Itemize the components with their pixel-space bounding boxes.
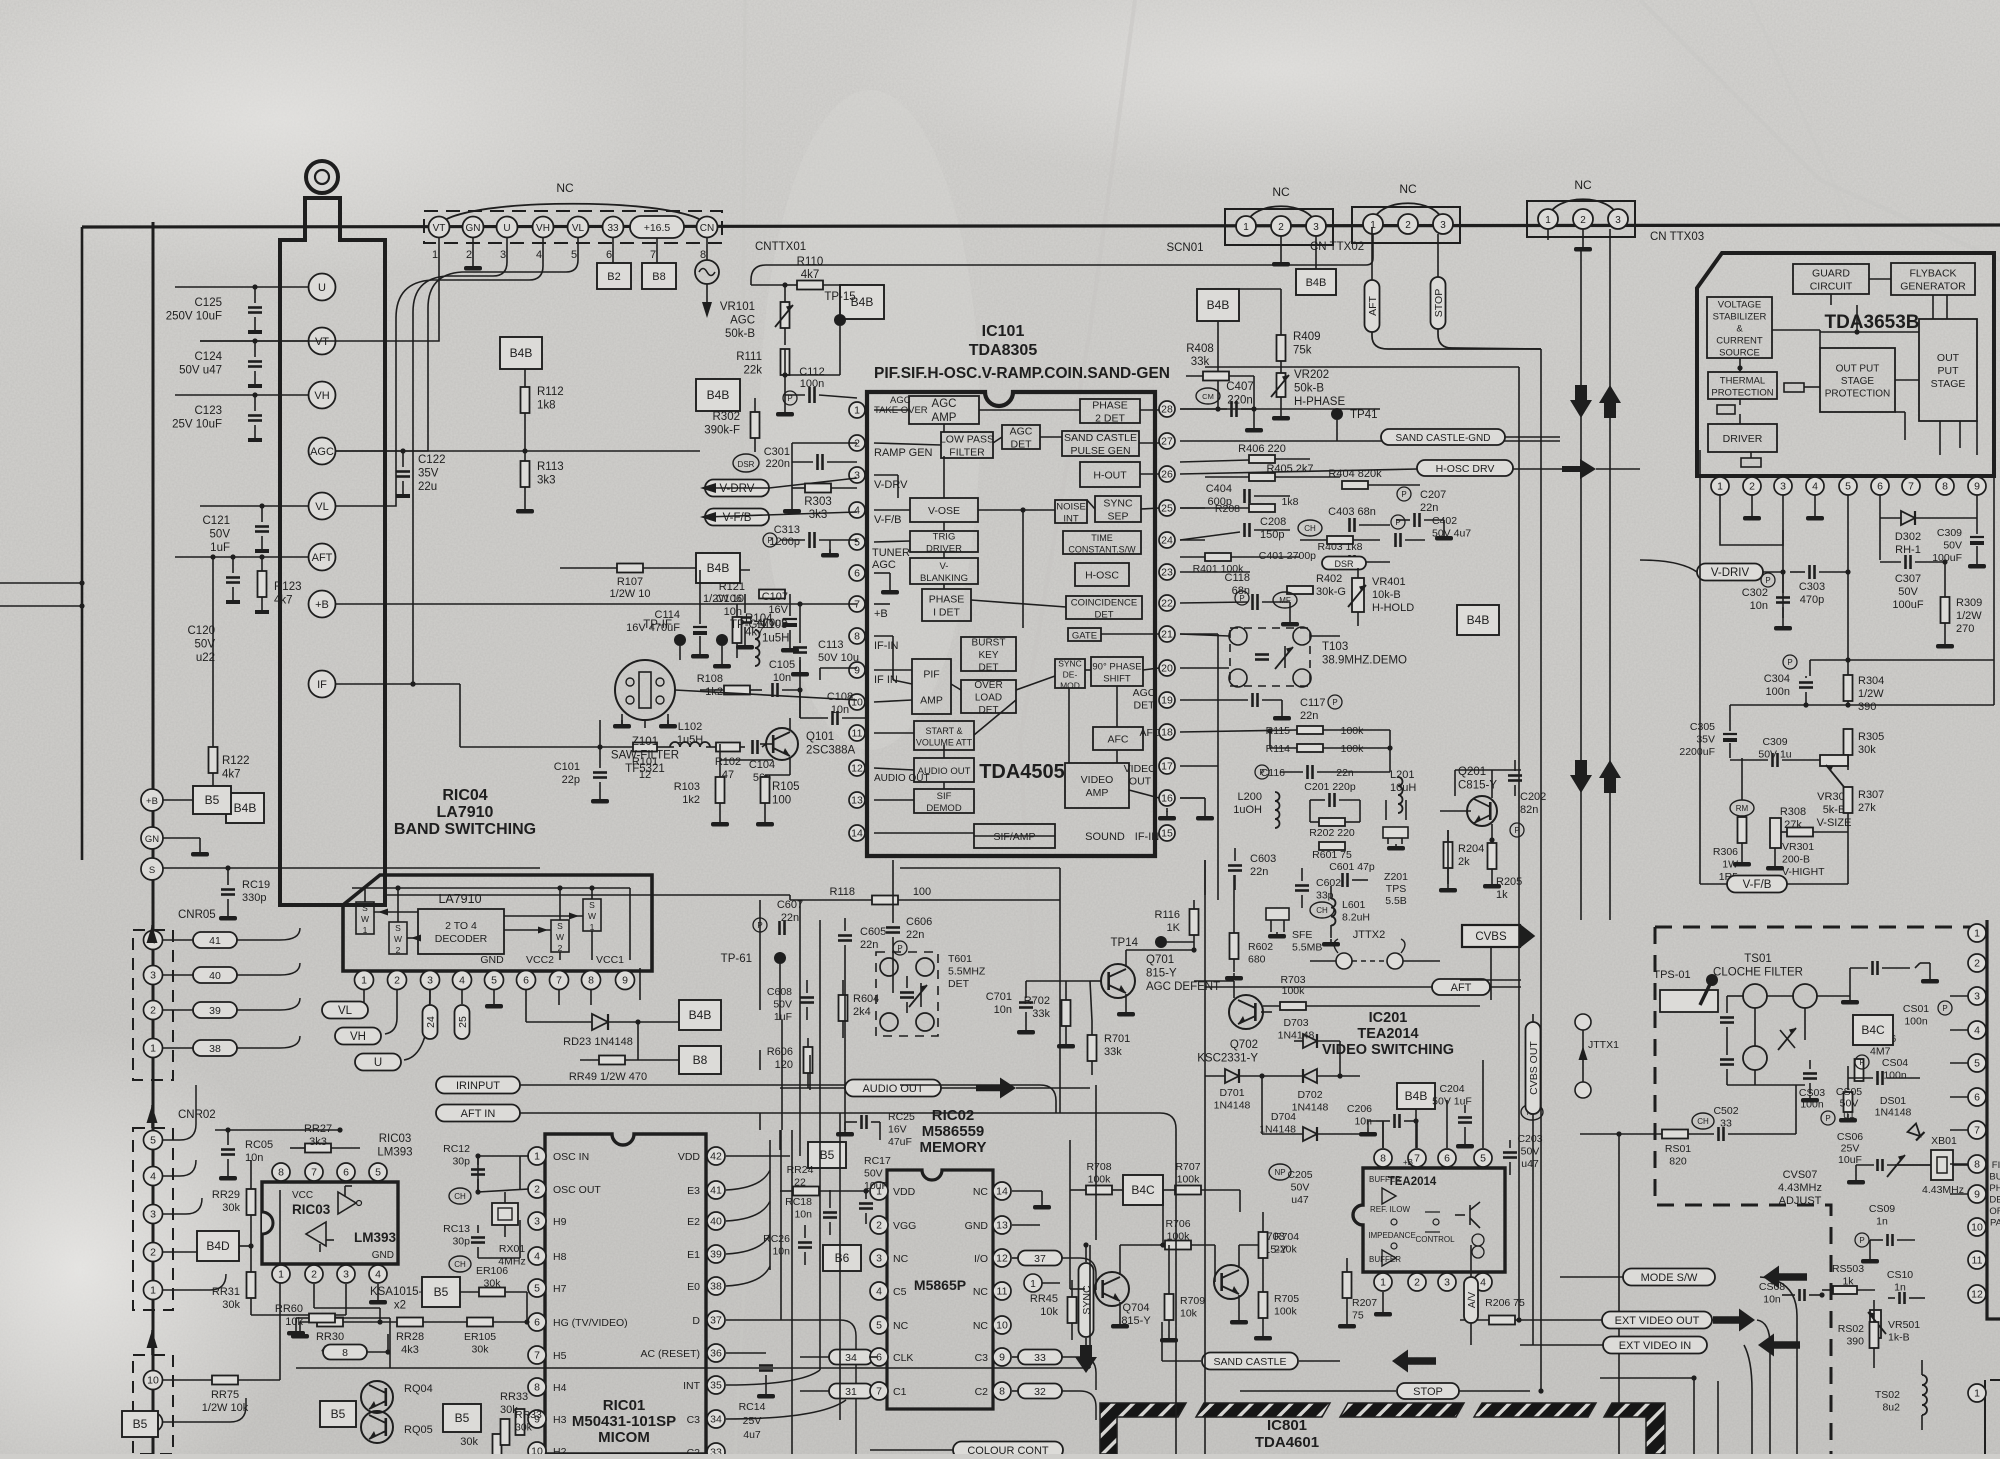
svg-text:C305: C305 bbox=[1690, 721, 1715, 733]
svg-text:TPS: TPS bbox=[1386, 883, 1406, 895]
inductor L103 bbox=[755, 619, 790, 666]
svg-text:RR31: RR31 bbox=[212, 1286, 240, 1298]
svg-text:NC: NC bbox=[973, 1320, 989, 1332]
svg-text:GND: GND bbox=[965, 1220, 989, 1232]
svg-text:1/2W 10k: 1/2W 10k bbox=[202, 1402, 249, 1414]
resistor R305 bbox=[1844, 729, 1885, 770]
svg-text:L200: L200 bbox=[1238, 791, 1262, 803]
svg-text:H2: H2 bbox=[553, 1446, 567, 1454]
RIC02 pin 9 bbox=[975, 1348, 1011, 1366]
label CVS07 bbox=[1778, 1155, 1931, 1207]
IC101 pin 20 bbox=[1159, 660, 1175, 676]
svg-text:R103: R103 bbox=[674, 781, 700, 793]
capacitor CS05 bbox=[1836, 1086, 1862, 1121]
box B4D bbox=[197, 1231, 254, 1261]
svg-text:C701: C701 bbox=[986, 991, 1012, 1003]
svg-text:22: 22 bbox=[794, 1177, 806, 1189]
wire CNTTX03 pin1 down bbox=[1547, 229, 1549, 240]
svg-text:8u2: 8u2 bbox=[1882, 1402, 1900, 1414]
colour IC pin 5 bbox=[1968, 1054, 1986, 1072]
svg-text:RH-1: RH-1 bbox=[1895, 544, 1921, 556]
IC101 pin19 label AGC DET bbox=[1133, 687, 1156, 712]
svg-text:S: S bbox=[557, 921, 563, 931]
capacitor C113 bbox=[791, 601, 859, 676]
colour IC pin 2 bbox=[1968, 954, 1986, 972]
svg-text:RM: RM bbox=[1736, 804, 1749, 813]
svg-text:8: 8 bbox=[342, 1347, 348, 1359]
svg-text:CVBS OUT: CVBS OUT bbox=[1528, 1041, 1540, 1095]
block PIF AMP bbox=[912, 659, 951, 714]
svg-text:DSR: DSR bbox=[1334, 559, 1354, 569]
svg-text:BUFFER: BUFFER bbox=[1369, 1175, 1401, 1184]
svg-text:R204: R204 bbox=[1458, 843, 1484, 855]
block COINCIDENCE DET bbox=[1066, 596, 1142, 621]
svg-text:H-OSC: H-OSC bbox=[1085, 570, 1119, 582]
svg-text:RX01: RX01 bbox=[499, 1243, 525, 1255]
svg-text:8: 8 bbox=[700, 249, 706, 261]
block VIDEO AMP bbox=[1065, 763, 1129, 808]
svg-text:33k: 33k bbox=[1104, 1046, 1122, 1058]
wire CNTTX01 pin1 down bbox=[200, 238, 439, 341]
svg-text:B5: B5 bbox=[455, 1411, 470, 1425]
RIC02 pin 3 bbox=[870, 1249, 909, 1267]
tuner pin +B bbox=[309, 591, 336, 618]
svg-text:R123: R123 bbox=[274, 581, 302, 593]
svg-text:CIRCUIT: CIRCUIT bbox=[1810, 281, 1853, 293]
svg-text:JTTX1: JTTX1 bbox=[1588, 1039, 1619, 1051]
svg-text:VCC: VCC bbox=[292, 1190, 313, 1201]
svg-text:VR101: VR101 bbox=[720, 301, 755, 313]
capacitor C125 bbox=[166, 287, 262, 334]
svg-text:10n: 10n bbox=[772, 1246, 790, 1258]
wire CNTTX01 pin4 down bbox=[336, 238, 543, 506]
box B8 la bbox=[679, 1046, 721, 1074]
svg-text:R406 220: R406 220 bbox=[1238, 443, 1286, 455]
wire sand h bbox=[1180, 539, 1205, 541]
svg-text:220k: 220k bbox=[1274, 1244, 1298, 1256]
resistor R121 wire bbox=[700, 569, 750, 571]
svg-text:CONTROL: CONTROL bbox=[1415, 1235, 1455, 1244]
svg-text:R709: R709 bbox=[1180, 1295, 1205, 1307]
connector CNTTX01 pin +16.5 bbox=[630, 216, 684, 261]
wire AFT pin left bbox=[175, 554, 308, 559]
connector CNR05 pin 2 bbox=[144, 1001, 163, 1020]
svg-text:50V 10u: 50V 10u bbox=[818, 652, 859, 664]
svg-text:RR33: RR33 bbox=[500, 1391, 528, 1403]
resistor R701 bbox=[1088, 981, 1131, 1075]
block V-BLANKING bbox=[910, 558, 978, 584]
capacitor C124 bbox=[179, 341, 262, 388]
svg-text:CONSTANT.S/W: CONSTANT.S/W bbox=[1068, 544, 1136, 554]
colour IC pin 11 bbox=[1968, 1251, 1986, 1269]
svg-text:4.43MHz: 4.43MHz bbox=[1778, 1182, 1822, 1194]
svg-text:LOW PASS: LOW PASS bbox=[940, 434, 994, 446]
block AUDIO OUT bbox=[914, 758, 974, 782]
svg-text:100n: 100n bbox=[800, 378, 824, 390]
pill 39 bbox=[163, 998, 300, 1018]
arrow bus up3 bbox=[147, 1330, 158, 1355]
svg-text:H4: H4 bbox=[553, 1382, 567, 1394]
IC101 pin 9 bbox=[849, 662, 898, 686]
svg-text:BAND SWITCHING: BAND SWITCHING bbox=[394, 821, 536, 838]
potentiometer VR303 bbox=[1800, 755, 1851, 829]
pill 32 mem bbox=[1012, 1384, 1096, 1421]
svg-text:T601: T601 bbox=[948, 953, 972, 965]
capacitor C607 bbox=[753, 899, 803, 935]
wire aft pill bbox=[1205, 979, 1521, 995]
svg-text:R105: R105 bbox=[772, 781, 800, 793]
svg-text:NOISE: NOISE bbox=[1056, 502, 1086, 513]
svg-text:C304: C304 bbox=[1764, 673, 1790, 685]
svg-text:100k: 100k bbox=[1341, 725, 1365, 737]
capacitor C201 bbox=[1304, 781, 1360, 807]
svg-text:NC: NC bbox=[973, 1286, 989, 1298]
RIC01 pin 2 bbox=[528, 1180, 601, 1198]
svg-text:NC: NC bbox=[556, 181, 574, 195]
svg-text:CS04: CS04 bbox=[1882, 1057, 1908, 1069]
connector CNR02 pin 1 bbox=[144, 1281, 163, 1300]
svg-text:M50431-101SP: M50431-101SP bbox=[572, 1413, 676, 1430]
svg-text:TP-IF: TP-IF bbox=[643, 619, 672, 631]
svg-text:MEMORY: MEMORY bbox=[920, 1139, 987, 1156]
capacitor C104 bbox=[749, 740, 775, 784]
svg-text:19: 19 bbox=[1161, 695, 1173, 707]
capacitor C403 bbox=[1328, 506, 1405, 532]
IC201 title bbox=[1322, 1010, 1454, 1058]
connector CNTTX01 pin 33 bbox=[603, 217, 624, 262]
resistor R403 bbox=[1300, 536, 1380, 553]
svg-text:28: 28 bbox=[1161, 404, 1173, 416]
svg-text:9: 9 bbox=[1974, 481, 1980, 493]
svg-text:OF: OF bbox=[1989, 1206, 2000, 1217]
RIC02 pin 8 bbox=[975, 1382, 1011, 1400]
svg-text:GND: GND bbox=[480, 954, 504, 966]
svg-text:TP14: TP14 bbox=[1111, 937, 1139, 949]
svg-text:MF: MF bbox=[1279, 596, 1291, 605]
wire sand castle left bbox=[1161, 1322, 1163, 1361]
wire saw to ic101 bbox=[675, 668, 857, 700]
svg-text:RC05: RC05 bbox=[245, 1139, 273, 1151]
svg-text:C606: C606 bbox=[906, 916, 932, 928]
pill 38 bbox=[163, 1036, 300, 1056]
svg-text:R402: R402 bbox=[1316, 573, 1342, 585]
svg-text:8: 8 bbox=[278, 1167, 284, 1179]
LM393 pin 1 bbox=[272, 1265, 290, 1283]
svg-text:P: P bbox=[1859, 1236, 1864, 1245]
svg-text:Q702: Q702 bbox=[1230, 1039, 1258, 1051]
IC101 pin 2 bbox=[849, 435, 933, 459]
svg-text:2 DET: 2 DET bbox=[1095, 413, 1125, 425]
wire left bus corner bbox=[0, 227, 85, 860]
svg-text:R107: R107 bbox=[617, 576, 643, 588]
svg-text:SAND CASTLE: SAND CASTLE bbox=[1064, 432, 1137, 444]
svg-text:C1: C1 bbox=[893, 1386, 907, 1398]
transistor IC801 hatched seg5 bbox=[1604, 1403, 1665, 1454]
potentiometer VR401 bbox=[1348, 568, 1414, 626]
op-amp U1 IC101 outline bbox=[867, 392, 1155, 856]
svg-text:RR33: RR33 bbox=[515, 1409, 542, 1421]
svg-text:VGG: VGG bbox=[893, 1220, 916, 1232]
colour IC pin 8 bbox=[1968, 1155, 1986, 1173]
svg-text:CH: CH bbox=[1697, 1117, 1709, 1126]
svg-text:C203: C203 bbox=[1517, 1133, 1542, 1145]
svg-text:AGC: AGC bbox=[310, 446, 334, 458]
pill CVBS OUT bbox=[1526, 1014, 1541, 1135]
IC101 pin 23 bbox=[1159, 564, 1175, 580]
svg-text:V-F/B: V-F/B bbox=[874, 514, 902, 526]
capacitor C606 bbox=[886, 910, 932, 955]
svg-text:50V: 50V bbox=[773, 999, 792, 1011]
connector CNR05 dashed bbox=[133, 909, 216, 1080]
resistor R205 bbox=[1483, 837, 1522, 901]
svg-text:35: 35 bbox=[710, 1380, 722, 1392]
svg-text:20: 20 bbox=[1161, 663, 1173, 675]
block TRIG DRIVER bbox=[910, 531, 978, 555]
svg-text:TP-15: TP-15 bbox=[824, 291, 855, 303]
capacitor C303 bbox=[1790, 565, 1851, 606]
IC101 pin 17 bbox=[1159, 758, 1175, 774]
wire AGC pin right bbox=[336, 448, 700, 453]
svg-text:AUDIO OUT: AUDIO OUT bbox=[918, 766, 971, 777]
svg-text:50V: 50V bbox=[1521, 1146, 1540, 1158]
resistor R112 bbox=[521, 369, 564, 451]
svg-text:R602: R602 bbox=[1248, 941, 1273, 953]
svg-text:EXT VIDEO OUT: EXT VIDEO OUT bbox=[1615, 1315, 1700, 1327]
svg-text:12: 12 bbox=[996, 1253, 1008, 1265]
wire VL pin left bbox=[200, 503, 308, 508]
connector CNR02 pin 2 bbox=[144, 1243, 163, 1262]
svg-text:50k-B: 50k-B bbox=[1294, 383, 1324, 395]
svg-text:ER106: ER106 bbox=[476, 1265, 508, 1277]
svg-text:VR202: VR202 bbox=[1294, 369, 1329, 381]
block SW2 right bbox=[551, 920, 569, 953]
svg-text:B4B: B4B bbox=[1306, 277, 1327, 289]
svg-text:+B: +B bbox=[315, 599, 329, 611]
resistor RR29 bbox=[212, 1160, 256, 1232]
svg-text:R705: R705 bbox=[1274, 1293, 1299, 1305]
svg-text:C121: C121 bbox=[203, 515, 231, 527]
RIC04 title bbox=[394, 787, 536, 838]
IC101 pin 26 bbox=[1159, 466, 1175, 482]
ground TEA pin1 bbox=[1374, 1292, 1392, 1317]
svg-text:100k: 100k bbox=[1167, 1231, 1191, 1243]
svg-text:NC: NC bbox=[973, 1186, 989, 1198]
wire audio bus bbox=[780, 950, 893, 1150]
resistor R708 bbox=[1070, 1161, 1120, 1195]
resistor R302 bbox=[704, 398, 759, 452]
wire VT pin left bbox=[200, 338, 308, 343]
svg-text:22p: 22p bbox=[562, 774, 580, 786]
svg-text:C309: C309 bbox=[1937, 527, 1962, 539]
svg-text:1u5H: 1u5H bbox=[677, 734, 703, 746]
svg-text:MOD: MOD bbox=[1060, 681, 1080, 691]
svg-text:1uOH: 1uOH bbox=[1233, 804, 1262, 816]
svg-text:NC: NC bbox=[1272, 185, 1290, 199]
svg-text:37: 37 bbox=[710, 1315, 722, 1327]
resistor R406 bbox=[1180, 443, 1310, 463]
svg-text:C5: C5 bbox=[893, 1286, 907, 1298]
svg-text:390k-F: 390k-F bbox=[704, 425, 740, 437]
svg-text:C404: C404 bbox=[1206, 483, 1232, 495]
svg-text:CS10: CS10 bbox=[1887, 1269, 1913, 1281]
svg-text:RC12: RC12 bbox=[443, 1143, 470, 1155]
svg-text:23: 23 bbox=[1161, 567, 1173, 579]
svg-text:10: 10 bbox=[1971, 1222, 1983, 1234]
wire hg pin bbox=[524, 1292, 529, 1325]
capacitor CS09 bbox=[1855, 1203, 1915, 1264]
svg-text:S: S bbox=[589, 900, 595, 910]
pill V-DRIV bbox=[1640, 560, 1786, 581]
svg-text:3: 3 bbox=[1974, 991, 1980, 1003]
svg-text:R706: R706 bbox=[1165, 1218, 1190, 1230]
svg-text:47uF: 47uF bbox=[888, 1136, 912, 1148]
op-amp RIC03 outline bbox=[262, 1182, 398, 1264]
svg-text:33: 33 bbox=[710, 1447, 722, 1454]
svg-text:V-: V- bbox=[940, 561, 949, 572]
svg-text:HG (TV/VIDEO): HG (TV/VIDEO) bbox=[553, 1317, 628, 1329]
svg-text:2: 2 bbox=[150, 1247, 156, 1259]
IC101 pin 8 bbox=[849, 628, 898, 652]
resistor R105 bbox=[756, 775, 800, 827]
svg-text:D702: D702 bbox=[1297, 1089, 1322, 1101]
resistor R405 bbox=[1205, 463, 1340, 481]
connector CNTTX01 pin VH bbox=[533, 217, 554, 262]
svg-text:R118: R118 bbox=[830, 886, 855, 898]
crystal XB01 bbox=[1895, 1135, 1968, 1196]
arrow down ttx03 bbox=[1570, 251, 1592, 920]
svg-text:C407: C407 bbox=[1226, 381, 1254, 393]
svg-text:ER105: ER105 bbox=[464, 1331, 496, 1343]
svg-text:6: 6 bbox=[1444, 1153, 1450, 1165]
svg-text:3: 3 bbox=[343, 1269, 349, 1281]
LA7910 pin 9 bbox=[616, 971, 635, 990]
potentiometer VR202 bbox=[1251, 369, 1345, 421]
svg-text:2: 2 bbox=[1580, 215, 1586, 226]
svg-text:14: 14 bbox=[851, 828, 863, 840]
svg-text:E1: E1 bbox=[687, 1249, 700, 1261]
capacitor C204 bbox=[1432, 1083, 1474, 1149]
wire vcc1 b4b bbox=[559, 990, 680, 1060]
TDA3653B pin 3 bbox=[1774, 476, 1792, 495]
svg-text:JTTX2: JTTX2 bbox=[1353, 929, 1385, 941]
resistor R602 bbox=[1225, 875, 1273, 981]
svg-text:OUT: OUT bbox=[1937, 352, 1960, 364]
TEA2014 pin 2 bbox=[1408, 1273, 1426, 1291]
svg-text:30k: 30k bbox=[484, 1278, 502, 1290]
svg-text:DET: DET bbox=[979, 705, 999, 716]
svg-text:11: 11 bbox=[1972, 1255, 1983, 1267]
svg-text:RC26: RC26 bbox=[763, 1233, 790, 1245]
svg-text:24: 24 bbox=[1161, 535, 1173, 547]
svg-text:EXT VIDEO IN: EXT VIDEO IN bbox=[1619, 1340, 1692, 1352]
svg-text:IF-IN: IF-IN bbox=[874, 640, 898, 652]
svg-text:BLANKING: BLANKING bbox=[920, 573, 968, 584]
svg-text:S: S bbox=[395, 923, 401, 933]
svg-text:C206: C206 bbox=[1347, 1103, 1372, 1115]
svg-text:KEY: KEY bbox=[978, 650, 998, 661]
svg-text:22u: 22u bbox=[418, 481, 437, 493]
resistor RR60 bbox=[275, 1303, 390, 1336]
op-amp RIC02 outline bbox=[887, 1170, 993, 1409]
svg-text:NC: NC bbox=[1399, 182, 1417, 196]
svg-text:GN: GN bbox=[145, 834, 159, 845]
tuner pin AFT bbox=[309, 544, 336, 571]
svg-text:6: 6 bbox=[1974, 1092, 1980, 1104]
resistor RR30 bbox=[291, 1318, 383, 1357]
svg-text:C123: C123 bbox=[195, 405, 223, 417]
IC101 pin 19 bbox=[1159, 692, 1175, 708]
pill EXT VIDEO OUT bbox=[1520, 1309, 1755, 1332]
svg-text:SOURCE: SOURCE bbox=[1719, 348, 1760, 359]
connector CNTTX03 NC arc bbox=[1548, 178, 1618, 218]
pill IRINPUT bbox=[436, 1077, 900, 1094]
svg-text:75k: 75k bbox=[1293, 345, 1312, 357]
svg-text:10n: 10n bbox=[1763, 1294, 1781, 1306]
svg-text:H7: H7 bbox=[553, 1283, 567, 1295]
svg-text:2 TO 4: 2 TO 4 bbox=[445, 920, 477, 932]
capacitor C117 bbox=[1180, 693, 1342, 722]
resistor R108 bbox=[697, 673, 762, 698]
svg-text:250V 10uF: 250V 10uF bbox=[166, 311, 222, 323]
IC101 pin 5 bbox=[849, 534, 910, 571]
block GUARD CIRCUIT bbox=[1793, 264, 1869, 294]
svg-text:C202: C202 bbox=[1520, 791, 1546, 803]
colour IC pin 7 bbox=[1968, 1121, 1986, 1139]
svg-text:30p: 30p bbox=[452, 1156, 470, 1168]
svg-text:2: 2 bbox=[150, 1005, 156, 1017]
svg-text:V-DRV: V-DRV bbox=[874, 479, 908, 491]
connector SCN01 box bbox=[1225, 209, 1333, 245]
wire mode sw bbox=[1560, 1266, 1807, 1289]
svg-text:5k-B: 5k-B bbox=[1823, 804, 1846, 816]
svg-text:2: 2 bbox=[558, 943, 563, 953]
svg-text:27k: 27k bbox=[1858, 802, 1876, 814]
svg-text:VL: VL bbox=[315, 501, 328, 513]
capacitor CS10 bbox=[1887, 1269, 1925, 1304]
svg-text:120: 120 bbox=[775, 1059, 793, 1071]
pill 41 bbox=[163, 928, 300, 948]
label DSR circle bbox=[733, 454, 759, 472]
svg-text:C101: C101 bbox=[554, 761, 580, 773]
wire tda pin3 down bbox=[1782, 495, 1784, 618]
inductor L201 bbox=[1390, 769, 1416, 813]
svg-text:1k: 1k bbox=[1496, 889, 1508, 901]
svg-text:4k7: 4k7 bbox=[274, 595, 293, 607]
svg-text:7: 7 bbox=[1414, 1153, 1420, 1165]
TEA2014 pin 3 bbox=[1438, 1273, 1456, 1291]
RIC02 pin 14 bbox=[973, 1182, 1011, 1200]
svg-text:+B: +B bbox=[874, 608, 888, 620]
connector CNTTX03 pin 3 bbox=[1608, 209, 1628, 229]
resistor RR49 bbox=[569, 1056, 679, 1084]
svg-text:DECODER: DECODER bbox=[435, 933, 488, 945]
IC101 pin 16 bbox=[1159, 790, 1175, 806]
svg-text:CS03: CS03 bbox=[1799, 1087, 1825, 1099]
svg-text:C122: C122 bbox=[418, 454, 446, 466]
arrow up ttx03 bbox=[1599, 385, 1621, 793]
block OVER LOAD DET bbox=[961, 680, 1016, 716]
block NOISE INT bbox=[1055, 500, 1087, 525]
svg-text:C125: C125 bbox=[195, 297, 223, 309]
tuner pin VT bbox=[309, 328, 336, 355]
crystal RX01 bbox=[478, 1156, 526, 1268]
svg-text:R307: R307 bbox=[1858, 789, 1884, 801]
svg-text:2: 2 bbox=[394, 975, 400, 987]
svg-text:1: 1 bbox=[363, 925, 368, 935]
svg-text:D: D bbox=[692, 1315, 700, 1327]
ground CNTTX03 pin2 bbox=[1574, 229, 1592, 252]
svg-text:1k: 1k bbox=[1842, 1276, 1854, 1288]
